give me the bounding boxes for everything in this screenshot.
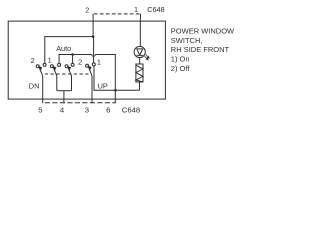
UP contact 2 <box>86 64 89 67</box>
resistor R1 zigzag <box>136 65 143 82</box>
svg-text:5: 5 <box>38 105 42 114</box>
svg-text:SWITCH,: SWITCH, <box>171 36 203 45</box>
node pin 6 / lamp branch <box>114 89 117 92</box>
auto left lever <box>53 67 57 76</box>
LED emission arrow 1 <box>145 56 147 59</box>
wire pin 1 to LED <box>139 19 141 47</box>
wire auto left pole <box>56 76 58 91</box>
auto left contact 1 <box>50 65 53 68</box>
svg-text:C648: C648 <box>122 105 140 114</box>
UP lever <box>89 67 93 77</box>
svg-text:C648: C648 <box>147 5 164 14</box>
switch contact circles <box>36 63 95 68</box>
svg-text:3: 3 <box>85 105 89 114</box>
LED D1 circle <box>134 46 145 57</box>
svg-text:Auto: Auto <box>56 44 71 53</box>
LED cathode bar <box>137 54 144 56</box>
power window switch box <box>8 21 165 99</box>
mechanical linkage (dashed) <box>45 73 89 75</box>
wire resistor bottom leg <box>139 82 141 90</box>
svg-text:1: 1 <box>134 5 138 14</box>
UP contact 1 <box>92 63 95 66</box>
svg-text:2) Off: 2) Off <box>171 64 191 73</box>
node pin2 branch <box>92 35 95 38</box>
wire auto yoke to pin 4 <box>63 91 65 104</box>
svg-text:4: 4 <box>60 105 65 114</box>
auto right lever <box>68 67 72 76</box>
connector C648 bottom dashed outline <box>45 102 116 104</box>
LED emission arrow 2 <box>146 55 148 57</box>
svg-text:1: 1 <box>48 56 52 65</box>
wire DN pole to pin 5 <box>42 76 44 103</box>
wire pin 2 down into box <box>92 19 94 37</box>
svg-text:RH SIDE FRONT: RH SIDE FRONT <box>171 45 230 54</box>
svg-text:2: 2 <box>31 56 35 65</box>
auto right contact rail <box>71 63 74 66</box>
auto pole yoke <box>57 90 72 92</box>
svg-text:1: 1 <box>97 58 101 67</box>
wire rail to auto right contact <box>72 55 74 64</box>
connector C648 top dashed outline <box>94 13 140 15</box>
auto right contact <box>65 65 68 68</box>
svg-text:2: 2 <box>85 6 89 15</box>
wire UP pole to pin 3 <box>91 76 93 103</box>
rail hop over pin-2 wire <box>92 55 96 57</box>
svg-text:DN: DN <box>29 81 40 90</box>
switch levers <box>39 66 92 76</box>
resistor R1 body <box>136 64 143 82</box>
wire UP contact 1 and resistor branch to pin 6 node <box>94 66 140 90</box>
wire auto right pole <box>71 76 73 91</box>
DN lever <box>39 67 43 76</box>
DN contact 2 <box>36 65 39 68</box>
junction dots <box>71 35 116 91</box>
wire branch to DN contact 1 <box>45 37 93 64</box>
wire pin 2 to UP contact 1 <box>93 37 95 63</box>
node rail tick <box>71 53 74 56</box>
svg-text:6: 6 <box>106 105 110 114</box>
LED triangle <box>137 49 143 55</box>
wire LED to resistor <box>139 58 141 64</box>
svg-text:POWER WINDOW: POWER WINDOW <box>171 27 235 36</box>
svg-text:1) On: 1) On <box>171 55 190 64</box>
rail wire: auto contacts to pin 6 <box>59 55 115 104</box>
svg-text:UP: UP <box>98 81 108 90</box>
DN contact 1 <box>43 63 46 66</box>
svg-text:2: 2 <box>78 58 82 67</box>
auto left contact rail <box>58 63 61 66</box>
